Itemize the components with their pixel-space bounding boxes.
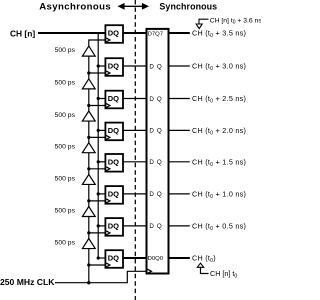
- wire: clock chain vertical (bottom segment from CLK junction): [88, 249, 90, 283]
- svg-text:500 ps: 500 ps: [55, 80, 76, 87]
- svg-text:Asynchronous: Asynchronous: [39, 2, 111, 13]
- junction: clock tap node FF3: [87, 104, 90, 107]
- svg-text:D0Q0: D0Q0: [148, 256, 164, 262]
- svg-text:D: D: [149, 223, 154, 230]
- junction: data tap node row 2: [97, 64, 100, 67]
- marker: CH[n] arrival time t0 (bottom): [197, 263, 237, 279]
- svg-text:250 MHz CLK: 250 MHz CLK: [0, 277, 55, 287]
- svg-text:Q: Q: [157, 159, 162, 166]
- junction: data tap node row 6: [97, 192, 100, 195]
- wire: clock chain segment above delay 2: [88, 56, 90, 79]
- delay buffer 5 (500 ps): [82, 174, 95, 184]
- wire: D input stub FF5: [98, 161, 106, 163]
- flip-flop FF4 (sampling DQ): [105, 123, 123, 141]
- wire: clock chain segment above delay 5: [88, 153, 90, 175]
- wire: register Q0 output: [169, 257, 190, 259]
- wire: clock chain segment above delay 3: [88, 89, 90, 111]
- wire: register Q7 output: [169, 32, 190, 34]
- junction: clock tap node FF5: [87, 167, 90, 170]
- wire: CH[n] input to FF1 D: [38, 32, 107, 34]
- wire: clock stub to FF4: [89, 136, 107, 138]
- svg-text:CH (t0 + 2.0 ns): CH (t0 + 2.0 ns): [192, 126, 246, 136]
- junction: CLK / delay-chain node: [87, 281, 90, 284]
- wire: clock stub to FF3: [89, 105, 107, 107]
- wire: FF2 Q to register D6: [123, 65, 147, 67]
- svg-text:D: D: [149, 191, 154, 198]
- svg-text:D: D: [149, 63, 154, 70]
- wire: data distribution vertical (CH[n] to all D inputs): [97, 33, 99, 258]
- svg-text:Q: Q: [157, 223, 162, 230]
- svg-text:CH (t0 + 0.5 ns): CH (t0 + 0.5 ns): [192, 222, 246, 232]
- boundary arrow (async/sync divider): [118, 3, 150, 10]
- flip-flop FF2 (sampling DQ): [105, 58, 123, 76]
- svg-text:CH [n] t0: CH [n] t0: [210, 269, 237, 280]
- wire: D input stub FF6: [98, 193, 106, 195]
- svg-text:DQ: DQ: [108, 254, 119, 263]
- junction: data tap node row 8: [97, 256, 100, 259]
- junction: clock tap node FF2: [87, 71, 90, 74]
- svg-text:CH (t0 + 2.5 ns): CH (t0 + 2.5 ns): [192, 94, 246, 104]
- svg-text:D7Q7: D7Q7: [148, 32, 163, 38]
- junction: data tap node row 4: [97, 129, 100, 132]
- wire: D input stub FF8: [98, 257, 106, 259]
- wire: clock stub to FF6: [89, 200, 107, 202]
- junction: clock tap node FF4: [87, 136, 90, 139]
- wire: D input stub FF4: [98, 129, 106, 131]
- svg-text:Q: Q: [157, 128, 162, 135]
- flip-flop FF8 (sampling DQ): [105, 250, 123, 268]
- svg-text:Q: Q: [157, 191, 162, 198]
- wire: clock chain segment above delay 4: [88, 121, 90, 143]
- wire: FF5 Q to register D3: [123, 161, 147, 163]
- wire: clock chain segment above delay 7: [88, 217, 90, 239]
- svg-text:Q: Q: [157, 63, 162, 70]
- junction: clock tap node FF7: [87, 231, 90, 234]
- svg-text:DQ: DQ: [108, 222, 119, 231]
- flip-flop FF5 (sampling DQ): [105, 154, 123, 172]
- svg-text:CH (t0): CH (t0): [192, 254, 216, 264]
- flip-flop FF1 (sampling DQ): [105, 25, 123, 43]
- svg-text:500 ps: 500 ps: [55, 175, 76, 182]
- wire: register Q3 output: [169, 161, 190, 163]
- wire: D input stub FF7: [98, 225, 106, 227]
- svg-text:DQ: DQ: [108, 126, 119, 135]
- wire: FF7 Q to register D1: [123, 225, 147, 227]
- wire: register Q2 output: [169, 193, 190, 195]
- boundary dashed line: [134, 0, 136, 300]
- svg-text:CH (t0 + 1.5 ns): CH (t0 + 1.5 ns): [192, 157, 246, 167]
- delay buffer 7 (500 ps): [82, 239, 95, 249]
- marker: CH[n] arrival time t0+3.6ns (top): [196, 17, 262, 28]
- svg-text:DQ: DQ: [108, 158, 119, 167]
- wire: FF8 Q to register D0: [123, 257, 147, 259]
- wire: clock stub to FF7: [89, 232, 107, 234]
- wire: register Q6 output: [169, 65, 190, 67]
- delay buffer 1 (500 ps): [82, 46, 95, 56]
- register U2 (8-bit output register): [147, 29, 169, 274]
- wire: FF6 Q to register D2: [123, 193, 147, 195]
- svg-text:D: D: [149, 128, 154, 135]
- wire: clock chain segment above delay 6: [88, 184, 90, 206]
- junction: data tap node row 7: [97, 224, 100, 227]
- junction: data tap node row 5: [97, 160, 100, 163]
- svg-text:Q: Q: [157, 96, 162, 103]
- svg-text:500 ps: 500 ps: [55, 47, 76, 54]
- wire: D input stub FF3: [98, 98, 106, 100]
- flip-flop FF7 (sampling DQ): [105, 218, 123, 236]
- svg-text:500 ps: 500 ps: [55, 112, 76, 119]
- svg-text:Synchronous: Synchronous: [159, 2, 217, 12]
- svg-text:500 ps: 500 ps: [55, 239, 76, 246]
- wire: clock chain top segment to FF1 clock: [88, 39, 90, 46]
- wire: clock stub to FF2: [89, 72, 107, 74]
- svg-text:D: D: [149, 159, 154, 166]
- flip-flop FF6 (sampling DQ): [105, 186, 123, 204]
- flip-flop FF3 (sampling DQ): [105, 91, 123, 109]
- junction: clock tap node FF6: [87, 199, 90, 202]
- wire: clock stub to FF1: [89, 39, 107, 41]
- junction: data tap node row 3: [97, 97, 100, 100]
- delay buffer 3 (500 ps): [82, 111, 95, 121]
- wire: clock stub to FF5: [89, 168, 107, 170]
- junction: clock tap node FF8: [87, 263, 90, 266]
- wire: register Q1 output: [169, 225, 190, 227]
- svg-text:DQ: DQ: [108, 190, 119, 199]
- wire: register Q5 output: [169, 98, 190, 100]
- delay buffer 4 (500 ps): [82, 143, 95, 153]
- wire: D input stub FF2: [98, 65, 106, 67]
- svg-text:DQ: DQ: [108, 62, 119, 71]
- svg-text:500 ps: 500 ps: [55, 207, 76, 214]
- svg-text:D: D: [149, 96, 154, 103]
- wire: clock stub to FF8: [89, 264, 107, 266]
- svg-text:CH (t0 + 1.0 ns): CH (t0 + 1.0 ns): [192, 190, 246, 200]
- wire: 250 MHz CLK to register clock: [55, 271, 147, 282]
- svg-text:DQ: DQ: [108, 29, 119, 38]
- svg-text:CH (t0 + 3.5 ns): CH (t0 + 3.5 ns): [192, 29, 246, 39]
- wire: FF1 Q to register D7: [123, 32, 147, 34]
- delay buffer 6 (500 ps): [82, 207, 95, 217]
- delay buffer 2 (500 ps): [82, 79, 95, 89]
- wire: register Q4 output: [169, 129, 190, 131]
- svg-text:500 ps: 500 ps: [55, 144, 76, 151]
- wire: FF3 Q to register D5: [123, 98, 147, 100]
- svg-text:DQ: DQ: [108, 94, 119, 103]
- svg-text:CH (t0 + 3.0 ns): CH (t0 + 3.0 ns): [192, 62, 246, 72]
- wire: FF4 Q to register D4: [123, 129, 147, 131]
- svg-text:CH [n]: CH [n]: [10, 28, 35, 38]
